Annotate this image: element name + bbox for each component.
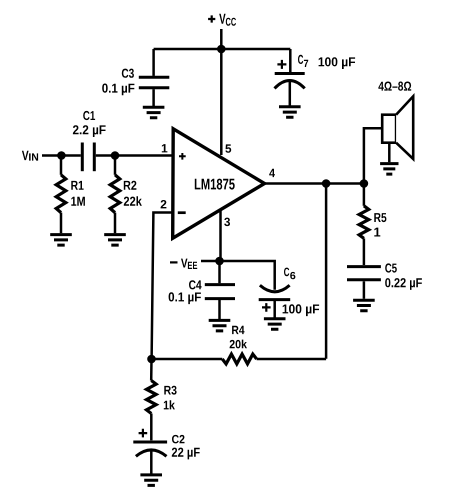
capacitor C7 plus sign	[277, 60, 286, 69]
wire feedback rise to output	[325, 184, 328, 359]
wire output pin 4	[262, 182, 364, 185]
speaker 4-8 ohm	[382, 96, 413, 162]
pin 1 label	[162, 144, 168, 152]
ground (C3)	[143, 107, 165, 118]
ground (R2)	[104, 235, 126, 246]
resistor R4	[222, 354, 256, 364]
capacitor C7	[275, 49, 305, 106]
ground (C6)	[264, 319, 286, 330]
capacitor C4	[205, 261, 235, 320]
wire VIN to C1	[42, 154, 81, 157]
resistor R3	[147, 359, 157, 440]
node junction VIN/R1	[57, 151, 66, 160]
pin 5 label	[225, 144, 231, 152]
power -VEE minus sign	[170, 261, 178, 263]
wire VEE rail to C6	[201, 261, 275, 290]
capacitor C5	[347, 267, 381, 299]
label speaker impedance	[378, 82, 411, 91]
wire VCC stub down through rail to op-amp pin 5	[220, 29, 223, 155]
ground (speaker)	[380, 164, 398, 175]
label C6 value	[283, 268, 320, 317]
label C3 value	[102, 69, 134, 96]
ground (C4)	[209, 320, 231, 331]
power +VCC plus sign	[208, 15, 215, 22]
label LM1875	[195, 179, 235, 190]
pin 3 label	[224, 218, 230, 227]
power -VEE label	[181, 259, 197, 269]
ground (R1)	[50, 235, 72, 246]
label R3 value	[164, 386, 177, 410]
wire C1 to pin 1	[96, 154, 173, 157]
capacitor C2	[133, 442, 167, 474]
wire VCC rail horizontal	[154, 48, 291, 51]
power +VCC label	[219, 14, 236, 26]
capacitor C1	[82, 143, 94, 172]
node VCC junction	[217, 45, 226, 54]
capacitor C2 plus sign	[139, 429, 148, 438]
label R1 value	[71, 181, 85, 206]
node junction C1/R2	[111, 151, 120, 160]
label C7 value	[298, 55, 355, 69]
node feedback junction	[147, 355, 156, 364]
capacitor C6 plus sign	[262, 303, 271, 312]
ground (C5)	[353, 300, 375, 311]
wire pin 3 to VEE node	[219, 209, 222, 261]
capacitor C6	[259, 285, 291, 317]
label C5 value	[385, 263, 422, 290]
ground (C7)	[279, 107, 301, 118]
wire feedback bottom left	[152, 358, 223, 361]
wire pin 2 feedback drop	[152, 213, 173, 360]
label R4 value	[230, 326, 247, 349]
label C1 value	[73, 111, 106, 137]
label R2 value	[124, 181, 142, 206]
label C4 value	[169, 280, 202, 304]
pin 4 label	[269, 169, 275, 177]
ground (C2)	[140, 475, 162, 486]
resistor R2	[110, 156, 120, 234]
op-amp U1 LM1875 triangle	[173, 129, 265, 238]
pin 2 label	[161, 200, 167, 208]
node output/speaker junction	[360, 179, 369, 188]
label R5 value	[374, 213, 386, 236]
node VEE junction	[215, 257, 224, 266]
op-amp - input marker	[178, 211, 186, 214]
capacitor C3	[139, 49, 170, 106]
node output/feedback junction	[322, 179, 331, 188]
node VIN input label	[22, 151, 38, 161]
resistor R1	[56, 156, 66, 234]
wire to speaker	[364, 128, 382, 183]
op-amp + input marker	[179, 153, 186, 160]
wire feedback bottom right	[257, 358, 327, 361]
label C2 value	[172, 435, 200, 460]
resistor R5	[359, 184, 369, 266]
